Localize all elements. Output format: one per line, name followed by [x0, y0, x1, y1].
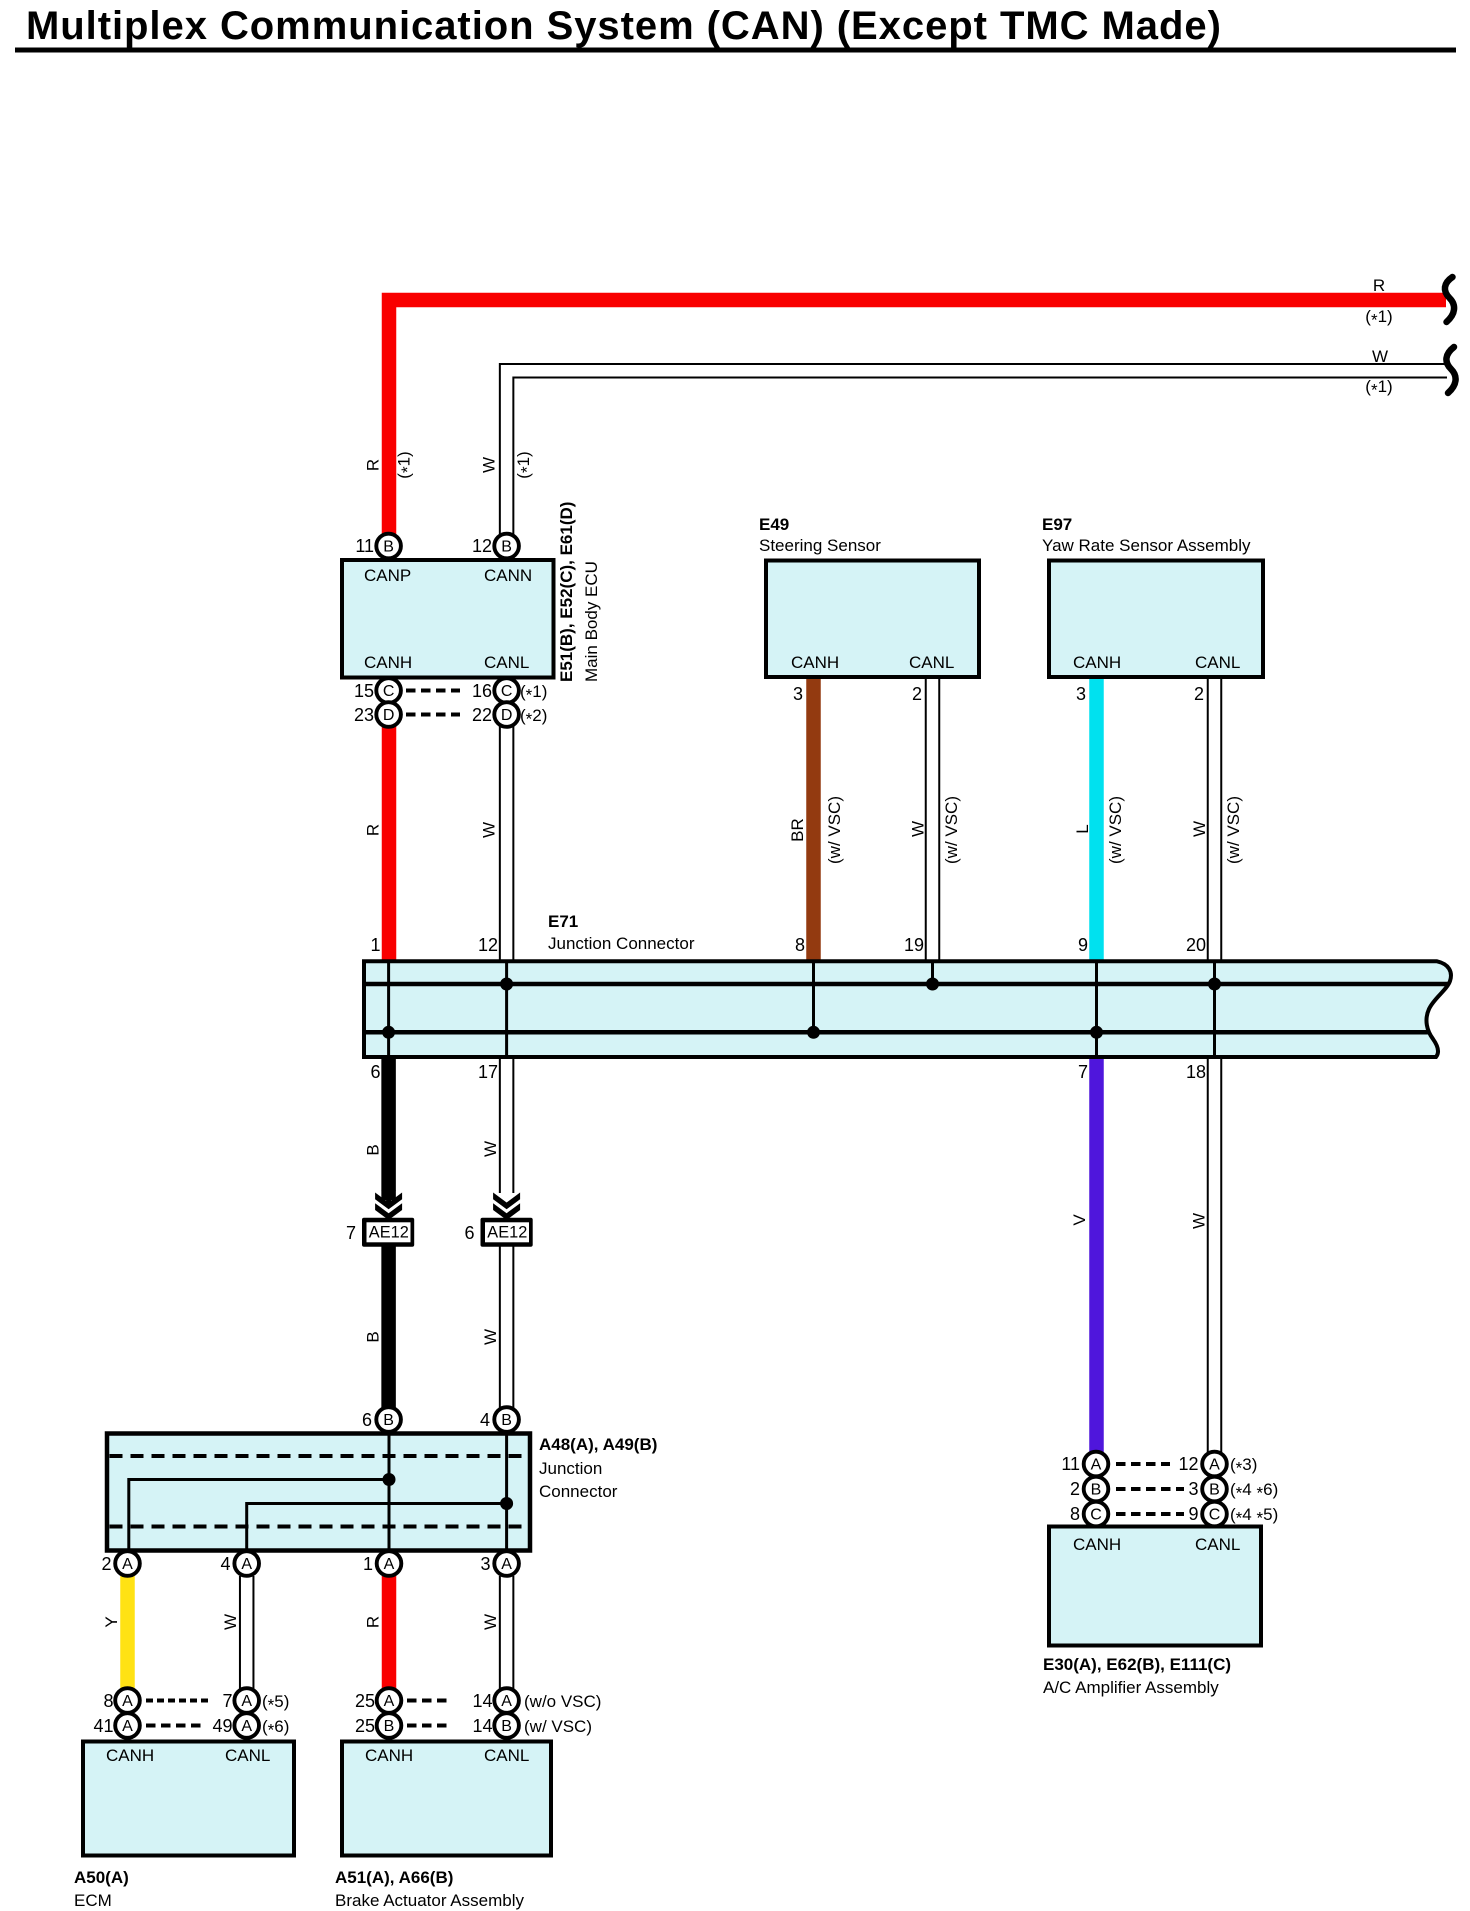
svg-text:3: 3	[480, 1554, 490, 1574]
junction dot on A48 pin 4-3 stub	[500, 1497, 513, 1510]
svg-text:Junction: Junction	[539, 1459, 602, 1478]
svg-text:12: 12	[478, 935, 498, 955]
junction dot pin 8 on CANH bus	[807, 1026, 820, 1039]
pin 14(B) of brake actuator	[494, 1713, 519, 1738]
svg-text:Y: Y	[102, 1616, 121, 1627]
svg-text:18: 18	[1186, 1062, 1206, 1082]
pin 14(A) of brake actuator	[494, 1688, 519, 1713]
svg-text:Main Body ECU: Main Body ECU	[582, 561, 601, 682]
junction dot pin 20 on CANL bus	[1208, 978, 1221, 991]
svg-text:R: R	[364, 824, 383, 836]
svg-text:B: B	[383, 539, 394, 556]
svg-text:A48(A), A49(B): A48(A), A49(B)	[539, 1435, 657, 1454]
wire break symbol on red wire at right edge	[1445, 277, 1454, 322]
svg-text:Junction Connector: Junction Connector	[548, 934, 695, 953]
svg-text:49: 49	[212, 1716, 232, 1736]
brake actuator block A51(A),A66(B)	[342, 1742, 551, 1856]
svg-text:W: W	[481, 1329, 500, 1345]
A48 internal dashed bus line (top)	[110, 1454, 529, 1458]
pin 25(A) of brake actuator	[377, 1688, 402, 1713]
svg-text:W: W	[1190, 821, 1209, 837]
svg-text:E30(A), E62(B), E111(C): E30(A), E62(B), E111(C)	[1043, 1655, 1231, 1674]
svg-text:A: A	[1209, 1457, 1220, 1474]
svg-text:R: R	[1373, 276, 1385, 295]
A48 internal stub pin 6 to pin 1	[388, 1436, 391, 1552]
svg-text:8: 8	[103, 1691, 113, 1711]
svg-text:4: 4	[480, 1410, 490, 1430]
svg-text:(*2): (*2)	[520, 706, 547, 729]
svg-text:Yaw Rate Sensor Assembly: Yaw Rate Sensor Assembly	[1042, 536, 1251, 555]
wire W (white) from E71 pin 18 down to A/C Amplifier pin 12	[1207, 1057, 1223, 1452]
pin 22(D) of main body ECU	[494, 702, 519, 727]
svg-text:C: C	[501, 683, 513, 700]
svg-text:14: 14	[472, 1716, 492, 1736]
svg-text:(*1): (*1)	[514, 451, 537, 478]
svg-text:B: B	[501, 1412, 512, 1429]
pin 2(A) of A48 junction connector	[115, 1551, 140, 1576]
junction dot pin 12 on CANL bus	[500, 978, 513, 991]
dashed link pin 23 to pin 22	[406, 713, 460, 717]
wire break symbol on white wire at right edge	[1446, 347, 1455, 393]
svg-text:6: 6	[370, 1062, 380, 1082]
pin 2(B) of A/C amplifier	[1084, 1477, 1109, 1502]
E97 Yaw Rate Sensor Assembly block	[1049, 561, 1263, 678]
svg-text:D: D	[501, 707, 513, 724]
pin 23(D) of main body ECU	[376, 702, 401, 727]
svg-text:B: B	[364, 1144, 383, 1155]
svg-text:W: W	[1190, 1213, 1209, 1229]
pin 1(A) of A48 junction connector	[377, 1551, 402, 1576]
svg-text:B: B	[501, 539, 512, 556]
connector AE12 (pin 7) box	[362, 1218, 414, 1247]
svg-text:A: A	[501, 1556, 512, 1573]
svg-text:3: 3	[1188, 1479, 1198, 1499]
A48 internal link line from pin 2	[129, 1480, 389, 1552]
svg-text:1: 1	[370, 935, 380, 955]
E71 internal stub pin 19	[931, 961, 934, 984]
svg-text:1: 1	[363, 1554, 373, 1574]
svg-text:A: A	[241, 1718, 252, 1735]
svg-text:V: V	[1070, 1214, 1089, 1226]
svg-text:2: 2	[912, 684, 922, 704]
wire BR (brown) from E49 CANH pin 3 down to E71 pin 8	[806, 676, 821, 963]
junction connector A48(A),A49(B) block	[107, 1434, 530, 1551]
svg-text:(*5): (*5)	[262, 1692, 289, 1715]
wire R (red) from Main Body ECU pin 23 down to E71 pin 1	[382, 725, 397, 963]
svg-text:W: W	[481, 1614, 500, 1630]
svg-text:ECM: ECM	[74, 1891, 112, 1910]
pin 8(A) of ECM	[115, 1688, 140, 1713]
svg-text:E51(B), E52(C), E61(D): E51(B), E52(C), E61(D)	[557, 502, 576, 682]
svg-text:CANH: CANH	[791, 653, 839, 672]
main body ECU block E51(B),E52(C),E61(D)	[342, 560, 554, 678]
svg-text:W: W	[221, 1614, 240, 1630]
pin 49(A) of ECM	[234, 1713, 259, 1738]
wire W (CANN bus, white double-line) from Main Body ECU pin 12 to right edge	[507, 371, 1447, 536]
svg-text:CANH: CANH	[106, 1746, 154, 1765]
wire W (white) from E97 CANL pin 2 down to E71 pin 20	[1207, 676, 1223, 963]
junction dot pin 19 on CANL bus	[926, 978, 939, 991]
svg-text:L: L	[1073, 824, 1092, 833]
dashed link pin 25 to pin 14 (row B)	[407, 1724, 451, 1728]
E71 internal CANH bus line (bottom)	[366, 1030, 1429, 1035]
svg-text:A51(A), A66(B): A51(A), A66(B)	[335, 1868, 453, 1887]
svg-text:BR: BR	[788, 818, 807, 842]
svg-text:7: 7	[222, 1691, 232, 1711]
E71 internal stub pin 20 to pin 18	[1213, 961, 1216, 1057]
svg-text:Brake Actuator Assembly: Brake Actuator Assembly	[335, 1891, 524, 1910]
svg-text:15: 15	[354, 681, 374, 701]
pin 12(A) of A/C amplifier	[1202, 1452, 1227, 1477]
svg-text:A: A	[122, 1556, 133, 1573]
svg-text:W: W	[480, 822, 499, 838]
svg-text:A: A	[122, 1718, 133, 1735]
svg-text:(*4 *5): (*4 *5)	[1230, 1505, 1278, 1528]
pin 25(B) of brake actuator	[377, 1713, 402, 1738]
svg-text:2: 2	[1070, 1479, 1080, 1499]
svg-text:Multiplex Communication System: Multiplex Communication System (CAN) (Ex…	[26, 4, 1222, 48]
svg-text:(w/ VSC): (w/ VSC)	[825, 796, 844, 864]
svg-text:W: W	[909, 821, 928, 837]
svg-text:R: R	[364, 1616, 383, 1628]
A/C amplifier block E30(A),E62(B),E111(C)	[1049, 1527, 1261, 1646]
ECM block A50(A)	[83, 1742, 294, 1856]
pin 12(B) of main body ECU	[494, 534, 519, 559]
arrow (double chevron) into AE12 pin 7	[375, 1190, 402, 1220]
pin 11(A) of A/C amplifier	[1084, 1452, 1109, 1477]
svg-text:(*3): (*3)	[1230, 1455, 1257, 1478]
svg-text:C: C	[1209, 1507, 1221, 1524]
svg-text:E49: E49	[759, 515, 789, 534]
E71 internal stub pin 9 to pin 7	[1095, 961, 1098, 1057]
svg-text:11: 11	[355, 536, 374, 556]
svg-text:7: 7	[346, 1223, 356, 1243]
svg-text:20: 20	[1186, 935, 1206, 955]
svg-text:6: 6	[464, 1223, 474, 1243]
svg-text:14: 14	[472, 1691, 492, 1711]
svg-text:11: 11	[1061, 1454, 1080, 1474]
svg-text:CANL: CANL	[1195, 653, 1240, 672]
title: Multiplex Communication System (CAN) (Except TMC Made)	[15, 4, 1456, 53]
svg-text:CANP: CANP	[364, 566, 411, 585]
pin 11(B) of main body ECU	[376, 534, 401, 559]
wire W (white) from A48 pin 3 down to Brake Actuator pin 14	[499, 1576, 515, 1689]
svg-text:23: 23	[354, 705, 374, 725]
A48 internal link line from pin 4	[247, 1504, 507, 1552]
wire R (red) from A48 pin 1 down to Brake Actuator pin 25	[382, 1576, 397, 1689]
svg-text:A: A	[501, 1693, 512, 1710]
svg-text:CANL: CANL	[484, 653, 529, 672]
pin 41(A) of ECM	[115, 1713, 140, 1738]
svg-text:A: A	[1091, 1457, 1102, 1474]
pin 8(C) of A/C amplifier	[1084, 1502, 1109, 1527]
arrow (double chevron) into AE12 pin 6	[493, 1193, 520, 1221]
svg-text:(w/ VSC): (w/ VSC)	[1106, 796, 1125, 864]
svg-text:(*6): (*6)	[262, 1717, 289, 1740]
pin 15(C) of main body ECU	[376, 678, 401, 703]
dashed link pin 15 to pin 16	[406, 689, 460, 693]
svg-text:8: 8	[1070, 1504, 1080, 1524]
svg-text:A: A	[122, 1693, 133, 1710]
dashed link pin 25 to pin 14 (row A)	[407, 1699, 451, 1703]
junction dot pin 9 on CANH bus	[1090, 1026, 1103, 1039]
svg-text:9: 9	[1188, 1504, 1198, 1524]
svg-text:CANH: CANH	[365, 1746, 413, 1765]
pin 7(A) of ECM	[234, 1688, 259, 1713]
wire L (light blue) from E97 CANH pin 3 down to E71 pin 9	[1089, 676, 1104, 963]
junction connector E71 block with torn right edge	[364, 961, 1451, 1057]
svg-text:A: A	[384, 1693, 395, 1710]
svg-text:B: B	[384, 1718, 395, 1735]
A48 internal dashed bus line (bottom)	[110, 1525, 529, 1529]
E71 internal stub pin 12 to pin 17	[505, 961, 508, 1057]
E71 internal stub pin 8	[812, 961, 815, 1032]
svg-text:2: 2	[101, 1554, 111, 1574]
svg-text:B: B	[364, 1331, 383, 1342]
junction dot pin 1 on CANH bus	[382, 1026, 395, 1039]
svg-text:(*1): (*1)	[1365, 307, 1392, 330]
A48 internal stub pin 4 to pin 3	[505, 1436, 508, 1552]
svg-text:CANH: CANH	[364, 653, 412, 672]
svg-text:B: B	[501, 1718, 512, 1735]
dashed link pin 11 to pin 12	[1116, 1462, 1170, 1466]
svg-text:R: R	[364, 459, 383, 471]
svg-text:12: 12	[472, 536, 492, 556]
svg-text:(w/o VSC): (w/o VSC)	[524, 1692, 601, 1711]
svg-text:Steering Sensor: Steering Sensor	[759, 536, 881, 555]
svg-text:12: 12	[1178, 1454, 1198, 1474]
svg-text:6: 6	[362, 1410, 372, 1430]
wire B (black) from E71 pin 6 down to connector AE12 pin 7	[381, 1057, 396, 1200]
connector AE12 (pin 6) box	[481, 1218, 533, 1247]
svg-text:3: 3	[1076, 684, 1086, 704]
svg-text:A/C Amplifier Assembly: A/C Amplifier Assembly	[1043, 1678, 1219, 1697]
svg-text:4: 4	[220, 1554, 230, 1574]
wire R (CANP bus, red) from Main Body ECU pin 11 to right edge	[389, 300, 1446, 535]
pin 3(A) of A48 junction connector	[494, 1551, 519, 1576]
E49 Steering Sensor block	[766, 561, 979, 678]
wire W (white) from Main Body ECU pin 22 down to E71 pin 12	[499, 725, 515, 963]
svg-text:(*1): (*1)	[520, 682, 547, 705]
dashed link pin 8 to pin 9	[1116, 1512, 1184, 1516]
pin 4(B) of A48 junction connector	[494, 1407, 519, 1432]
svg-text:CANL: CANL	[909, 653, 954, 672]
dashed link pin 41 to pin 49	[146, 1724, 203, 1728]
wire W (white) from E49 CANL pin 2 down to E71 pin 19	[925, 676, 941, 963]
svg-text:22: 22	[472, 705, 492, 725]
svg-text:2: 2	[1194, 684, 1204, 704]
svg-text:8: 8	[795, 935, 805, 955]
svg-text:A: A	[384, 1556, 395, 1573]
svg-text:(*4 *6): (*4 *6)	[1230, 1480, 1278, 1503]
svg-text:AE12: AE12	[369, 1223, 409, 1242]
svg-text:CANH: CANH	[1073, 1535, 1121, 1554]
wire W (white) from A48 pin 4 down to ECM pin 7	[239, 1576, 255, 1689]
svg-text:CANL: CANL	[1195, 1535, 1240, 1554]
svg-text:B: B	[383, 1412, 394, 1429]
svg-text:(*1): (*1)	[395, 451, 418, 478]
pin 6(B) of A48 junction connector	[376, 1407, 401, 1432]
wire Y (yellow) from A48 pin 2 down to ECM pin 8	[120, 1576, 135, 1689]
dashed link pin 8 to pin 7	[146, 1699, 209, 1703]
E71 internal stub pin 1 to pin 6	[387, 961, 390, 1057]
svg-text:C: C	[1090, 1507, 1102, 1524]
svg-text:CANH: CANH	[1073, 653, 1121, 672]
svg-text:B: B	[1091, 1482, 1102, 1499]
svg-text:W: W	[481, 1141, 500, 1157]
svg-text:C: C	[383, 683, 395, 700]
wire B (black) from AE12 down to junction connector A48 pin 6	[381, 1246, 396, 1408]
svg-text:A: A	[241, 1556, 252, 1573]
E71 internal CANL bus line (top)	[366, 982, 1448, 987]
svg-text:25: 25	[355, 1716, 375, 1736]
svg-text:CANL: CANL	[225, 1746, 270, 1765]
svg-text:Connector: Connector	[539, 1482, 618, 1501]
pin 9(C) of A/C amplifier	[1202, 1502, 1227, 1527]
dashed link pin 2 to pin 3	[1116, 1487, 1184, 1491]
svg-text:E97: E97	[1042, 515, 1072, 534]
svg-text:9: 9	[1078, 935, 1088, 955]
svg-text:7: 7	[1078, 1062, 1088, 1082]
svg-text:CANN: CANN	[484, 566, 532, 585]
svg-text:A50(A): A50(A)	[74, 1868, 129, 1887]
junction dot on A48 pin 6-1 stub	[383, 1473, 396, 1486]
svg-text:16: 16	[472, 681, 492, 701]
svg-text:W: W	[1372, 347, 1388, 366]
svg-text:B: B	[1209, 1482, 1220, 1499]
svg-text:D: D	[383, 707, 395, 724]
svg-text:E71: E71	[548, 912, 578, 931]
svg-text:(w/ VSC): (w/ VSC)	[1224, 796, 1243, 864]
svg-text:(w/ VSC): (w/ VSC)	[942, 796, 961, 864]
svg-text:CANL: CANL	[484, 1746, 529, 1765]
wire V (violet) from E71 pin 7 down to A/C Amplifier pin 11	[1089, 1057, 1104, 1452]
svg-text:41: 41	[93, 1716, 113, 1736]
pin 16(C) of main body ECU	[494, 678, 519, 703]
svg-text:(w/ VSC): (w/ VSC)	[524, 1717, 592, 1736]
pin 3(B) of A/C amplifier	[1202, 1477, 1227, 1502]
svg-text:19: 19	[904, 935, 924, 955]
svg-text:W: W	[480, 457, 499, 473]
svg-text:AE12: AE12	[487, 1223, 527, 1242]
svg-text:3: 3	[793, 684, 803, 704]
wire W (white) from AE12 down to junction connector A48 pin 4	[499, 1246, 515, 1408]
pin 4(A) of A48 junction connector	[234, 1551, 259, 1576]
svg-text:A: A	[241, 1693, 252, 1710]
svg-text:(*1): (*1)	[1365, 377, 1392, 400]
svg-text:25: 25	[355, 1691, 375, 1711]
svg-text:17: 17	[478, 1062, 498, 1082]
wire W (white) from E71 pin 17 down to connector AE12 pin 6	[499, 1057, 515, 1193]
